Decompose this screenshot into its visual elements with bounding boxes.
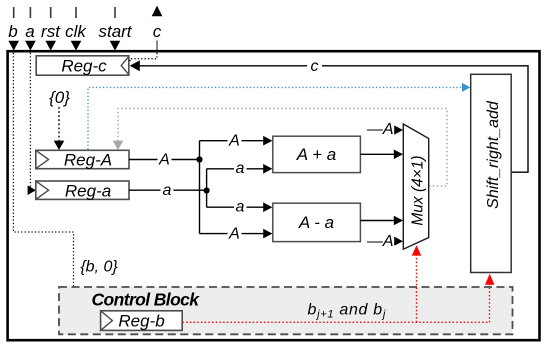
svg-text:rst: rst (41, 22, 61, 41)
blue arrowhead into Shift_right_add (462, 83, 470, 92)
input arrow start (110, 41, 121, 51)
svg-text:a: a (236, 160, 245, 177)
arrowhead -A bottom into Mux (394, 237, 403, 246)
wire Reg-b outputs (red dotted) (182, 285, 489, 323)
wire A-a output to Mux (360, 220, 394, 222)
wire red branch to Mux select (416, 255, 418, 322)
wire a from Reg-a to junction (129, 189, 207, 191)
wire a to adder A+a (207, 168, 264, 170)
block Shift_right_add (471, 74, 512, 272)
node junction a (204, 187, 210, 193)
arrowhead into Reg-c (130, 60, 140, 71)
wire A to adder A+a (200, 140, 264, 142)
input arrow clk (71, 41, 82, 51)
wire A to adder A-a (200, 233, 264, 235)
svg-text:A: A (228, 226, 240, 243)
svg-text:Shift_right_add: Shift_right_add (485, 100, 502, 209)
control block container (59, 287, 513, 334)
wire b (dotted) to Reg-b (13, 53, 91, 319)
output stem c (156, 41, 158, 51)
svg-text:A: A (228, 133, 240, 150)
red arrowhead into Shift_right_add (485, 274, 494, 285)
svg-text:{0}: {0} (49, 88, 70, 107)
register Reg-a (36, 181, 129, 200)
adder A-a (273, 203, 361, 241)
svg-text:start: start (98, 22, 132, 41)
wire A to Shift_right_add (blue dotted) (88, 87, 463, 149)
wire {0} to Reg-A (dotted) (58, 107, 60, 141)
wire a vertical branch (206, 169, 208, 207)
input stub clk (75, 7, 77, 18)
wire A vertical branch (199, 141, 201, 234)
wire Mux output to Reg-A (gray dotted) (118, 109, 447, 187)
svg-text:Reg-a: Reg-a (65, 181, 111, 200)
svg-text:a: a (236, 199, 245, 216)
register Reg-A (36, 150, 129, 169)
label A on wire (158, 152, 172, 167)
input arrow rst (45, 41, 56, 51)
svg-text:b: b (8, 22, 17, 41)
svg-text:{b, 0}: {b, 0} (80, 259, 118, 276)
wire a (dotted) to Reg-a (29, 53, 31, 190)
mux Mux (4x1) (403, 124, 428, 249)
svg-text:—A: —A (366, 233, 394, 250)
svg-text:Reg-b: Reg-b (118, 312, 164, 331)
wire a to adder A-a (207, 206, 264, 208)
arrowhead into Reg-a (28, 185, 36, 195)
register Reg-c (36, 56, 129, 76)
red arrowhead into Mux (412, 245, 421, 255)
label a on wire (161, 184, 174, 197)
adder A+a (273, 136, 361, 172)
svg-text:A: A (158, 152, 170, 169)
input stub start (114, 7, 116, 18)
input stub b (13, 7, 15, 18)
wire A from Reg-A to junction (129, 159, 200, 161)
svg-text:—A: —A (366, 121, 394, 138)
arrowhead into Reg-b (91, 314, 100, 324)
svg-text:a: a (25, 22, 34, 41)
wire c to top output (dotted) (130, 53, 157, 63)
register Reg-b (101, 311, 183, 331)
gray arrowhead into Reg-A (113, 141, 124, 150)
arrowhead -A top into Mux (394, 125, 403, 134)
input stub rst (50, 7, 52, 18)
input arrow b (8, 41, 19, 51)
arrowhead {0} into Reg-A (54, 141, 65, 150)
input stub a (29, 7, 31, 18)
input arrow a (25, 41, 36, 51)
svg-text:A + a: A + a (296, 145, 337, 164)
svg-text:c: c (153, 22, 162, 41)
svg-text:c: c (311, 58, 319, 75)
svg-text:a: a (163, 182, 172, 199)
wire c feedback from Shift_right_add to Reg-c (140, 66, 528, 172)
svg-text:Reg-A: Reg-A (64, 151, 112, 170)
wire A+a output to Mux (360, 153, 394, 155)
svg-text:Control Block: Control Block (92, 290, 201, 310)
svg-text:clk: clk (65, 22, 87, 41)
svg-text:A - a: A - a (298, 213, 334, 232)
node junction A (196, 156, 202, 162)
svg-text:Reg-c: Reg-c (61, 57, 107, 76)
label c on feedback wire (307, 59, 322, 73)
svg-text:Mux (4×1): Mux (4×1) (410, 155, 427, 225)
output arrow c (up) (152, 6, 163, 17)
